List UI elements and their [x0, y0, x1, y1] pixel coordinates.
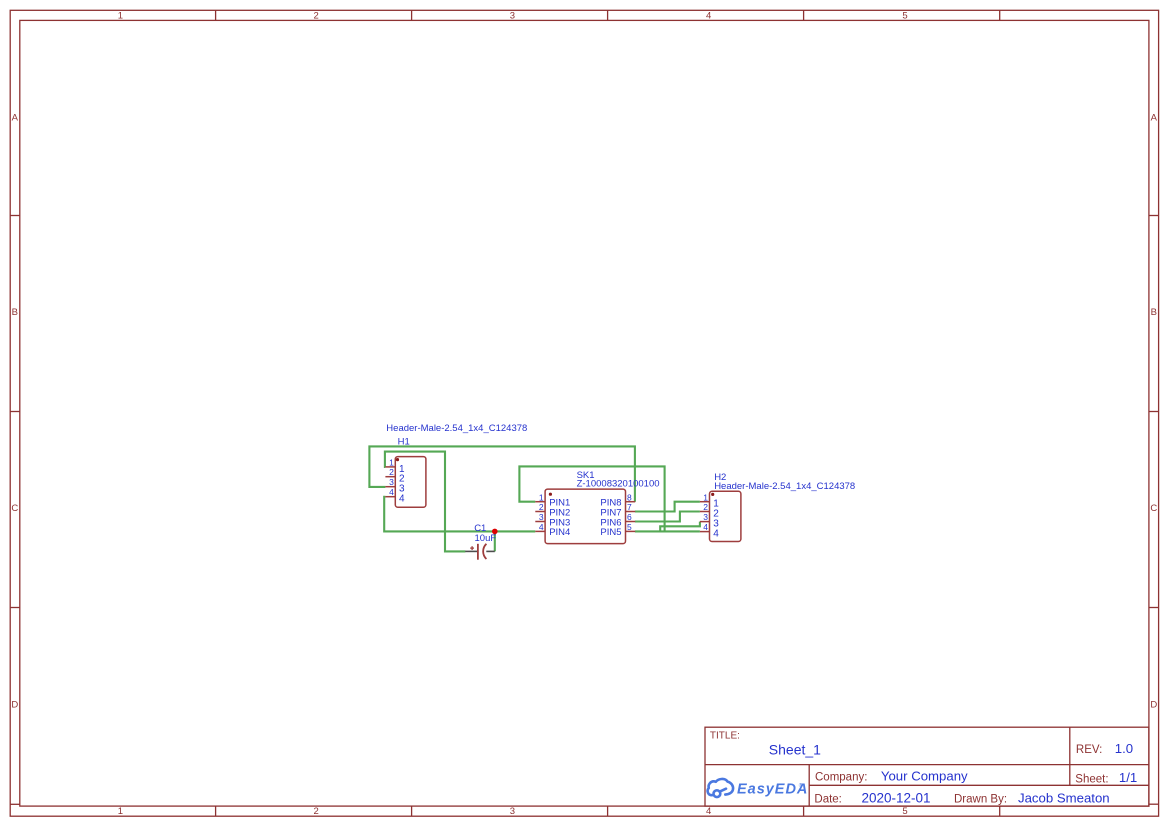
H1 pin numbers: [389, 457, 394, 497]
svg-text:1.0: 1.0: [1115, 741, 1133, 756]
svg-text:1: 1: [389, 457, 394, 467]
svg-text:C: C: [11, 503, 18, 514]
capacitor C1: [465, 544, 495, 560]
svg-text:3: 3: [510, 806, 515, 817]
svg-text:A: A: [1151, 112, 1158, 123]
svg-text:5: 5: [902, 806, 907, 817]
svg-text:4: 4: [539, 522, 544, 532]
svg-text:Header-Male-2.54_1x4_C124378: Header-Male-2.54_1x4_C124378: [714, 481, 855, 492]
svg-text:2020-12-01: 2020-12-01: [862, 791, 931, 806]
wire SK1.5 to H2.4: [635, 530, 700, 532]
wire H1.1 to C1 positive: [385, 452, 466, 552]
svg-text:C: C: [1150, 503, 1157, 514]
SK1 pin numbers right: [627, 492, 632, 532]
wire C1 negative vertical: [494, 531, 496, 551]
SK1 pin names right: [600, 498, 621, 539]
svg-text:A: A: [12, 112, 19, 123]
frame row labels left: [11, 112, 18, 710]
svg-text:4: 4: [706, 11, 711, 22]
wire SK1.1 loop to net at SK1.5: [519, 466, 664, 531]
svg-text:2: 2: [314, 11, 319, 22]
svg-text:2: 2: [314, 806, 319, 817]
svg-text:Company:: Company:: [815, 772, 867, 784]
svg-text:Sheet:: Sheet:: [1075, 774, 1108, 786]
SK1 pin numbers left: [539, 492, 544, 532]
svg-text:2: 2: [539, 502, 544, 512]
svg-text:1: 1: [539, 492, 544, 502]
svg-text:5: 5: [902, 11, 907, 22]
svg-text:B: B: [1151, 307, 1157, 318]
svg-text:3: 3: [510, 11, 515, 22]
svg-text:3: 3: [539, 512, 544, 522]
header H1: [385, 457, 426, 508]
wire SK1.6 to H2.2: [635, 512, 700, 522]
svg-text:H1: H1: [398, 436, 410, 447]
EasyEDA logo cloud: [708, 779, 733, 797]
svg-text:2: 2: [389, 467, 394, 477]
svg-text:1/1: 1/1: [1119, 770, 1137, 785]
svg-text:1: 1: [118, 11, 123, 22]
svg-text:Drawn By:: Drawn By:: [954, 794, 1007, 806]
svg-text:1: 1: [703, 492, 708, 502]
title block lines: [705, 727, 1149, 806]
svg-text:Jacob Smeaton: Jacob Smeaton: [1018, 791, 1110, 806]
svg-text:REV:: REV:: [1076, 744, 1102, 756]
svg-text:Sheet_1: Sheet_1: [769, 741, 821, 757]
frame row labels right: [1150, 112, 1157, 710]
svg-text:B: B: [12, 307, 18, 318]
svg-text:TITLE:: TITLE:: [710, 731, 740, 742]
svg-text:Date:: Date:: [814, 794, 842, 806]
wire H1.4 to SK1.4: [384, 497, 535, 532]
svg-text:Header-Male-2.54_1x4_C124378: Header-Male-2.54_1x4_C124378: [386, 423, 527, 434]
svg-text:Your Company: Your Company: [881, 769, 968, 784]
wire SK1.7 to H2.1: [635, 502, 700, 512]
frame column labels bottom: [118, 806, 908, 817]
svg-text:4: 4: [713, 529, 719, 540]
svg-text:8: 8: [627, 492, 632, 502]
svg-text:4: 4: [399, 494, 405, 505]
svg-text:®: ®: [799, 782, 803, 789]
svg-text:2: 2: [703, 502, 708, 512]
svg-text:PIN4: PIN4: [549, 527, 570, 538]
frame column labels top: [118, 11, 908, 22]
H2 pin numbers: [703, 492, 708, 532]
junction dot at C1 net: [492, 529, 498, 535]
svg-text:D: D: [1150, 700, 1157, 711]
header H2: [700, 491, 741, 541]
chip SK1: [535, 489, 635, 543]
H1 pin names: [399, 464, 405, 505]
svg-text:D: D: [11, 700, 18, 711]
svg-text:4: 4: [703, 522, 708, 532]
svg-text:3: 3: [703, 512, 708, 522]
wire branch to H2.3: [660, 522, 700, 532]
svg-text:7: 7: [627, 502, 632, 512]
H2 pin names: [713, 499, 719, 540]
svg-text:EasyEDA: EasyEDA: [737, 781, 807, 797]
svg-text:1: 1: [118, 806, 123, 817]
svg-text:4: 4: [389, 487, 394, 497]
svg-text:5: 5: [627, 522, 632, 532]
svg-text:4: 4: [706, 806, 711, 817]
svg-text:3: 3: [389, 477, 394, 487]
svg-text:PIN5: PIN5: [600, 527, 621, 538]
SK1 pin names left: [549, 498, 570, 539]
svg-text:6: 6: [627, 512, 632, 522]
svg-text:Z-10008320100100: Z-10008320100100: [577, 479, 660, 490]
svg-text:10uF: 10uF: [475, 533, 497, 544]
wire H1.3 to SK1.8: [369, 446, 635, 501]
